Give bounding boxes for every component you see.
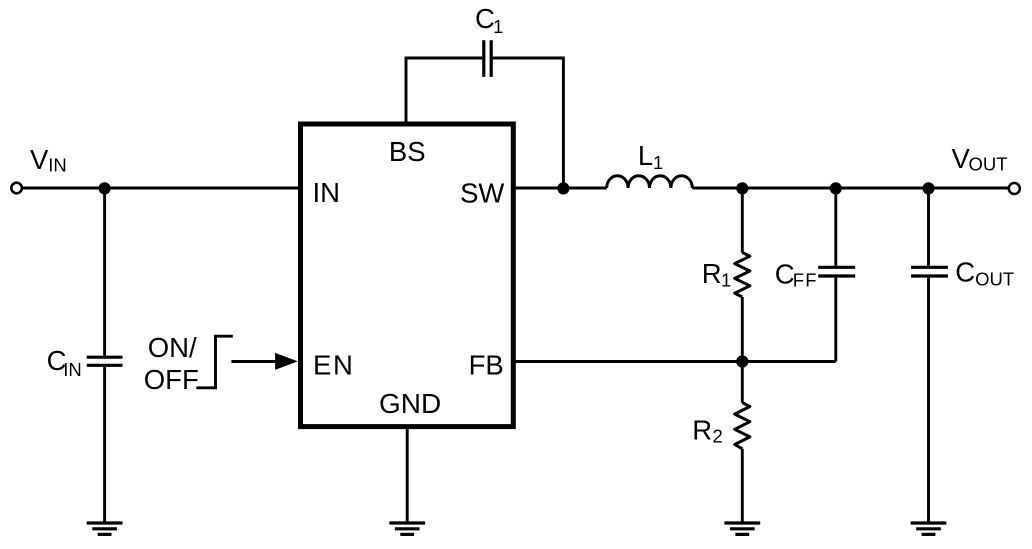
svg-text:1: 1	[721, 269, 731, 290]
svg-text:C: C	[475, 3, 495, 34]
svg-text:C: C	[775, 259, 795, 290]
svg-text:EN: EN	[313, 349, 354, 380]
svg-text:1: 1	[653, 152, 663, 173]
svg-text:R: R	[702, 258, 722, 289]
svg-text:1: 1	[493, 16, 503, 37]
svg-text:BS: BS	[389, 136, 426, 167]
svg-text:IN: IN	[48, 155, 66, 176]
svg-text:OFF: OFF	[144, 364, 199, 395]
svg-text:L: L	[638, 140, 653, 171]
svg-text:SW: SW	[460, 178, 504, 209]
svg-text:OUT: OUT	[969, 153, 1008, 174]
svg-text:IN: IN	[313, 177, 341, 208]
svg-text:V: V	[30, 144, 49, 175]
svg-text:R: R	[692, 414, 712, 445]
svg-text:2: 2	[713, 425, 723, 446]
svg-text:ON/: ON/	[148, 332, 197, 363]
svg-text:IN: IN	[63, 359, 81, 380]
svg-text:OUT: OUT	[975, 269, 1014, 290]
svg-text:FF: FF	[793, 270, 818, 291]
svg-text:FB: FB	[469, 349, 504, 380]
svg-text:C: C	[955, 257, 975, 288]
svg-text:GND: GND	[379, 388, 441, 419]
